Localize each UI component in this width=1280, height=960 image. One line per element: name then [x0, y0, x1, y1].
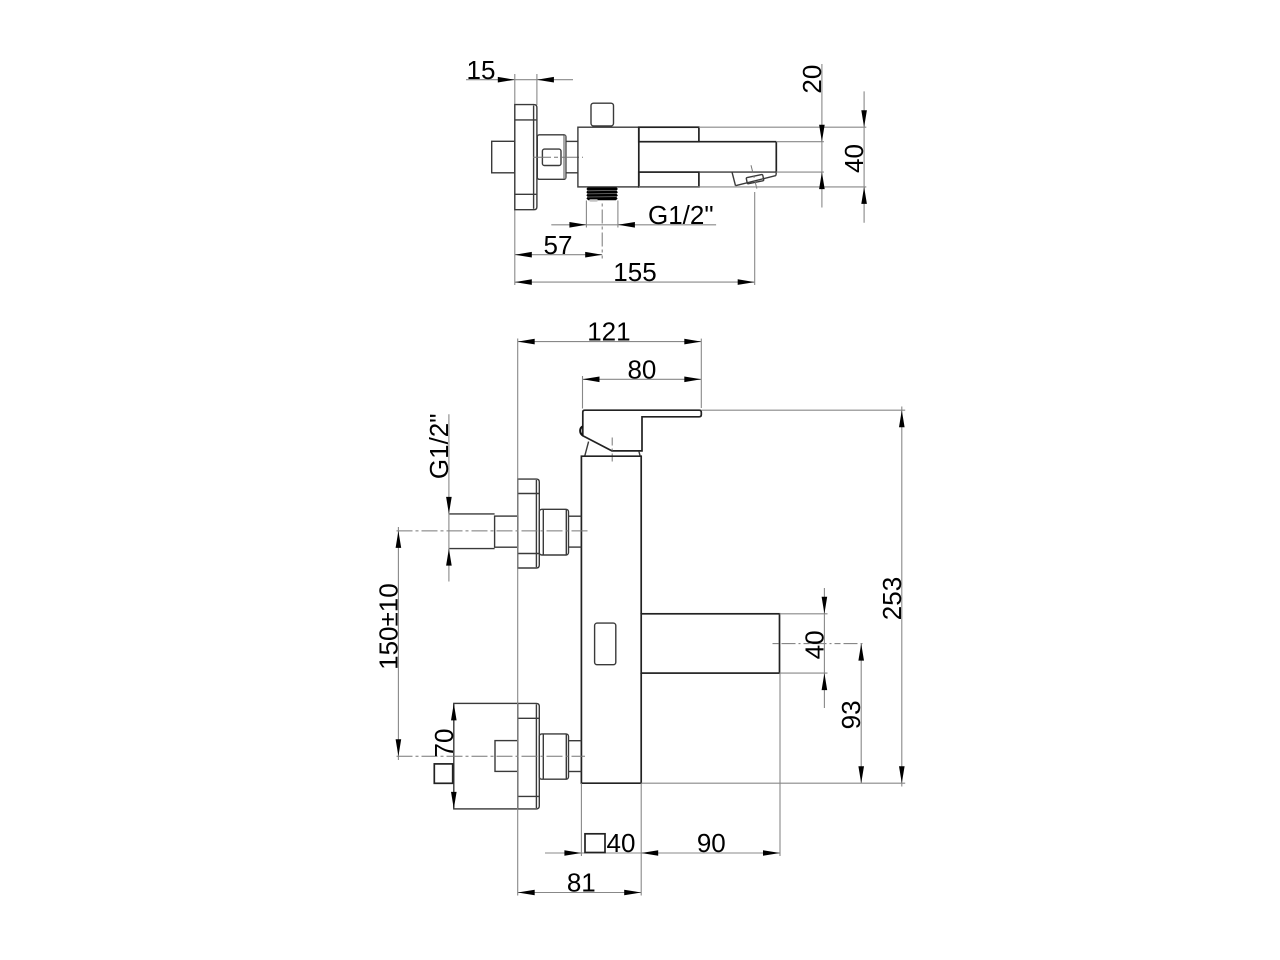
dimension 155 arrow left [515, 279, 532, 285]
bottom nut groove left [542, 734, 544, 778]
handle right extension line [700, 339, 702, 408]
dimension 150±10 line [397, 527, 399, 760]
top plate inner vertical [535, 480, 537, 567]
body (side view) [578, 127, 639, 187]
handle top extension line [701, 409, 905, 411]
top supply pipe lower edge [449, 548, 495, 550]
diverter button (front view) [595, 623, 616, 665]
nut neck top line [566, 140, 578, 142]
dimension 81 arrow left [518, 890, 535, 896]
dimension 90 arrow right [763, 850, 780, 856]
dimension 40 arrow up [861, 187, 867, 204]
hose connector right edge [617, 201, 619, 228]
body top extension line [699, 126, 866, 128]
dimension G1/2 arrow right-side [618, 222, 635, 228]
dimension 40 arrow down [861, 110, 867, 127]
dimension 40 line (top view) [863, 91, 865, 222]
dimension 121 arrow left [518, 339, 535, 345]
body right edge thick [638, 127, 640, 187]
cartridge centerline [611, 438, 613, 464]
dimension 81 arrow right [624, 890, 641, 896]
svg-text:70: 70 [429, 729, 459, 758]
mounting band top [639, 127, 699, 142]
outlet highlight patch [589, 199, 598, 201]
handle left extension line [582, 376, 584, 409]
aerator [746, 174, 764, 184]
bottom nut groove right [565, 734, 567, 778]
dimension 20 arrow down [819, 125, 825, 142]
svg-text:40: 40 [839, 144, 869, 173]
svg-text:G1/2": G1/2" [424, 413, 454, 479]
supply square (side view) [492, 141, 515, 173]
dimension square40 arrow [564, 850, 581, 856]
threaded outlet G1/2 [586, 188, 618, 201]
wall lower extension line [517, 339, 519, 896]
dimension 253 arrow down [899, 766, 905, 783]
body bottom extension line [641, 782, 905, 784]
knob foot left [593, 126, 595, 127]
bottom neck upper line [569, 740, 582, 742]
dimension 40 spout arrow down [822, 597, 828, 614]
nut shading band [563, 136, 566, 179]
dimension 81 line [518, 892, 642, 894]
diverter knob (side view) [591, 103, 614, 126]
body right lower extension line [640, 783, 642, 895]
spout bottom extension line [776, 171, 824, 173]
top nut groove left [542, 510, 544, 555]
dimension 90 arrow left [641, 850, 658, 856]
bottom connector nut [539, 734, 568, 779]
wall plate (side view) [515, 105, 537, 210]
spout centerline [773, 643, 865, 645]
svg-text:150±10: 150±10 [373, 583, 403, 670]
dimension 70 square symbol [434, 764, 452, 783]
svg-text:90: 90 [697, 828, 726, 858]
handle corner bulge [580, 426, 583, 435]
top neck upper line [569, 515, 582, 517]
wall plate inner line bottom [515, 193, 537, 195]
body left lower extension line [580, 783, 582, 856]
body bottom extension line [639, 186, 867, 188]
nut neck bottom line [566, 172, 578, 174]
dimension 15 arrow right [498, 77, 515, 83]
dimension 93 line [860, 644, 862, 784]
cartridge collar left edge [585, 442, 589, 457]
handle lever [583, 410, 702, 451]
dimension 57 line [515, 254, 602, 256]
spout top edge [699, 141, 776, 143]
bottom connection centerline [397, 755, 586, 757]
hose connector left edge [585, 201, 587, 228]
bottom wall plate (front view) [518, 703, 540, 809]
spout cut left edge [732, 172, 735, 185]
dimension 90 line [641, 852, 780, 854]
spout top extension line [780, 613, 828, 615]
dimension square40 line [545, 852, 641, 854]
dimension G1/2 line [551, 224, 716, 226]
top neck lower line [569, 546, 582, 548]
bottom elbow neck [495, 741, 518, 772]
dimension 57 arrow right [585, 252, 602, 258]
svg-text:80: 80 [627, 354, 656, 384]
spout right edge [775, 142, 777, 172]
svg-text:20: 20 [797, 65, 827, 94]
dimension G1/2 arrow up [446, 549, 452, 566]
top connection centerline [397, 530, 589, 532]
top plate inner line lower [518, 553, 539, 555]
dimension 253 arrow up [899, 410, 905, 427]
nut centerline [533, 156, 583, 158]
dimension 93 arrow down [858, 766, 864, 783]
dimension 121 line [518, 341, 702, 343]
bottom supply square elbow [454, 703, 518, 809]
svg-text:40: 40 [799, 630, 829, 659]
dimension 155 arrow right [738, 279, 755, 285]
wall plate inner vertical line [533, 106, 535, 209]
outlet centerline [601, 204, 603, 259]
svg-text:155: 155 [613, 257, 656, 287]
top supply pipe upper edge [449, 513, 495, 515]
dimension 20 arrow up [819, 172, 825, 189]
svg-text:57: 57 [544, 230, 573, 260]
dimension G1/2 vertical line [448, 414, 450, 581]
dimension 80 arrow left [583, 377, 600, 383]
dimension 121 arrow right [684, 339, 701, 345]
connector nut (side view) [537, 135, 566, 180]
aerator extension line [754, 192, 756, 285]
bottom neck lower line [569, 771, 582, 773]
top plate inner line upper [518, 493, 539, 495]
spout top extension line [776, 141, 824, 143]
dimension 150±10 arrow down [396, 739, 402, 756]
knob foot right [610, 126, 612, 127]
dimension 80 line [583, 378, 702, 380]
spout right lower extension line [779, 673, 781, 856]
svg-text:253: 253 [877, 577, 907, 620]
nut inner square [542, 149, 561, 165]
dimension 80 arrow right [684, 377, 701, 383]
dimension 150±10 arrow up [396, 531, 402, 548]
svg-text:81: 81 [567, 868, 596, 898]
svg-text:15: 15 [467, 55, 496, 85]
dimension 40 spout arrow up [822, 673, 828, 690]
dimension G1/2 arrow left-side [569, 222, 586, 228]
bottom plate inner vertical [535, 704, 537, 808]
body (front view) [581, 456, 641, 783]
dimension 40 spout line [823, 588, 825, 708]
dimension 57 arrow left [515, 252, 532, 258]
mounting band bottom [639, 172, 699, 187]
top wall plate (front view) [518, 479, 540, 568]
dimension 155 line [515, 281, 755, 283]
dimension 15 line [466, 79, 573, 81]
dimension 70 arrow down [451, 792, 457, 809]
aerator centerline [751, 165, 757, 190]
top supply elbow [495, 516, 518, 547]
bottom plate inner line lower [518, 795, 539, 797]
dimension 93 arrow up [858, 644, 864, 661]
svg-text:93: 93 [836, 700, 866, 729]
dimension 70 line with arrows [451, 703, 457, 720]
wall extension line [514, 74, 516, 285]
wall plate inner line top [515, 119, 537, 121]
dimension G1/2 arrow down [446, 497, 452, 514]
plate right extension line [536, 74, 538, 105]
spout bottom edge [699, 171, 776, 173]
spout (front view) [641, 614, 779, 673]
top connector nut [539, 509, 568, 555]
svg-text:121: 121 [587, 317, 630, 347]
spout cut right closure [775, 172, 778, 176]
dimension 15 arrow left [537, 77, 554, 83]
dimension 253 line [901, 407, 903, 787]
dimension 20 line [821, 64, 823, 208]
bottom plate inner line upper [518, 717, 539, 719]
thread ridge lines [588, 189, 617, 191]
svg-text:40: 40 [607, 828, 636, 858]
cartridge collar right edge [639, 451, 640, 456]
dimension square40 square symbol [585, 834, 605, 853]
spout cut diagonal face [736, 176, 776, 186]
top nut groove right [565, 510, 567, 555]
svg-text:G1/2": G1/2" [648, 200, 714, 230]
spout bottom extension line [780, 672, 828, 674]
